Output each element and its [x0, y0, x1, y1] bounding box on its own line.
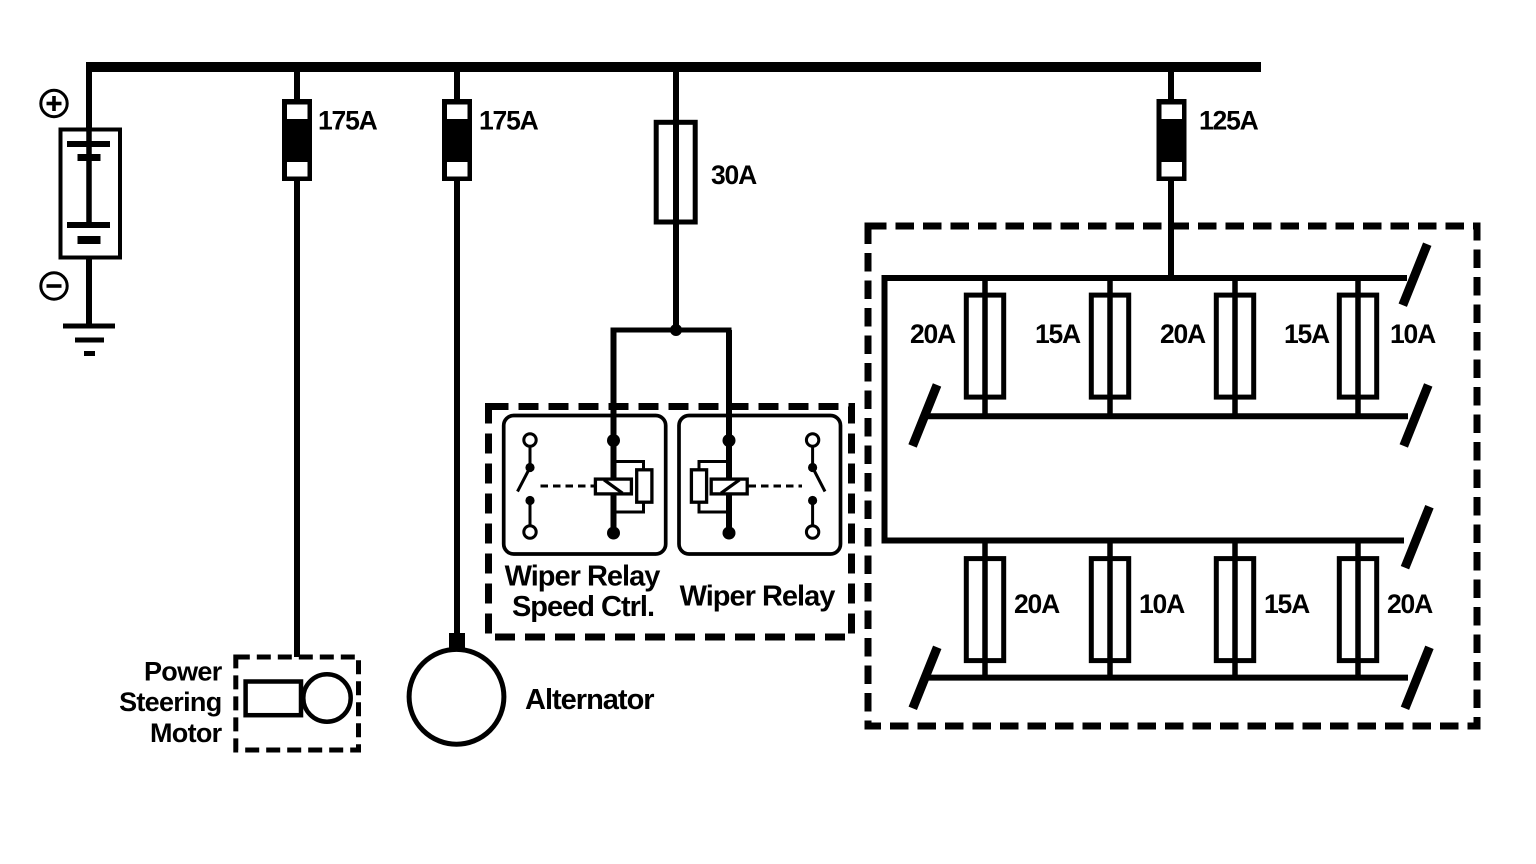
slash terminator second bus right [1405, 507, 1430, 568]
wire F4 to fuse box [1168, 181, 1174, 278]
svg-text:30A: 30A [711, 160, 757, 190]
minus terminal [41, 273, 67, 299]
svg-text:15A: 15A [1264, 589, 1310, 619]
top row return bus [928, 413, 1408, 419]
svg-text:Power: Power [144, 657, 223, 687]
relay K1 resistor parallel path [614, 462, 652, 513]
fuse FB7 15A wire [1232, 541, 1238, 678]
fuse FB1 20A wire [982, 278, 988, 416]
fuse FB3 20A wire [1232, 278, 1238, 416]
node junction [670, 324, 682, 336]
relay module dashed box [489, 407, 852, 638]
svg-text:10A: 10A [1139, 589, 1185, 619]
power steering motor dashed box [236, 657, 359, 750]
fuse F3 30A [656, 122, 695, 222]
bottom return bus [928, 675, 1408, 681]
fuse box second feed bus [882, 538, 1405, 544]
svg-text:Speed Ctrl.: Speed Ctrl. [512, 591, 654, 623]
svg-text:Alternator: Alternator [525, 684, 654, 716]
motor M1 [246, 674, 351, 721]
slash terminator return bus left [913, 385, 938, 446]
fuse FB2 15A [1091, 295, 1128, 397]
wire bus to fuse F4 [1168, 67, 1174, 100]
wire split horizontal [611, 328, 732, 333]
slash terminator bottom bus right [1405, 647, 1430, 708]
fuse F4 125A [1157, 99, 1187, 181]
fuse FB1 20A [966, 295, 1003, 397]
relay K1 actuation dashed line [541, 485, 596, 488]
fuse FB2 15A wire [1107, 278, 1113, 416]
relay K2 body [679, 416, 841, 555]
fuse FB7 15A [1216, 559, 1253, 661]
slash terminator return bus right [1404, 385, 1429, 446]
wire F1 to power steering motor [294, 181, 300, 657]
fuse box feed bus (top) [882, 275, 1408, 281]
wire bus to fuse F1 [294, 67, 300, 100]
relay K2 resistor parallel path [691, 462, 729, 513]
relay K2 pin dots [723, 434, 736, 447]
slash terminator top bus right [1403, 244, 1428, 305]
svg-text:125A: 125A [1199, 106, 1259, 136]
relay K1 pin dots [607, 434, 620, 447]
battery B1 [61, 130, 121, 258]
svg-text:175A: 175A [479, 106, 539, 136]
svg-text:Motor: Motor [150, 718, 223, 748]
fuse FB5 20A wire [982, 541, 988, 678]
main bus wire [86, 62, 1261, 72]
svg-text:10A: 10A [1390, 319, 1436, 349]
fuse F2 175A [442, 99, 472, 181]
relay K2 switch [806, 434, 825, 538]
alternator G1 [409, 649, 504, 744]
fuse box dashed border [868, 226, 1477, 726]
svg-text:Steering: Steering [119, 687, 221, 717]
relay K2 actuation dashed line [749, 485, 803, 488]
svg-text:20A: 20A [910, 319, 956, 349]
svg-text:175A: 175A [318, 106, 378, 136]
wire bus to fuse F2 [454, 67, 460, 100]
fuse FB3 20A [1216, 295, 1253, 397]
relay K1 body [504, 416, 666, 555]
svg-text:20A: 20A [1014, 589, 1060, 619]
svg-text:Wiper Relay: Wiper Relay [680, 581, 836, 613]
fuse FB5 20A [966, 559, 1003, 661]
fuse FB4 15A [1339, 295, 1376, 397]
fuse FB8 20A wire [1355, 541, 1361, 678]
fuse FB4 15A wire [1355, 278, 1361, 416]
wire bus through fuse F3 to junction [673, 67, 679, 330]
relay K1 switch [518, 434, 537, 538]
svg-text:20A: 20A [1160, 319, 1206, 349]
relay K1 coil [595, 479, 631, 494]
svg-text:15A: 15A [1284, 319, 1330, 349]
wire F2 to alternator [454, 181, 460, 640]
slash terminator bottom bus left [913, 647, 938, 708]
fuse FB8 20A [1339, 559, 1376, 661]
fuse FB6 10A [1091, 559, 1128, 661]
svg-text:Wiper Relay: Wiper Relay [505, 561, 661, 593]
alternator terminal [449, 633, 465, 649]
svg-text:15A: 15A [1035, 319, 1081, 349]
wire to relay K2 [726, 330, 732, 533]
plus terminal [41, 90, 67, 116]
wire battery to ground [86, 260, 92, 327]
ground [63, 326, 115, 354]
wire battery to bus [86, 67, 92, 130]
fuse box left riser wire [882, 278, 888, 541]
svg-text:20A: 20A [1387, 589, 1433, 619]
fuse F1 175A [282, 99, 312, 181]
relay K2 coil [711, 479, 747, 494]
wire to relay K1 [611, 330, 617, 533]
fuse FB6 10A wire [1107, 541, 1113, 678]
